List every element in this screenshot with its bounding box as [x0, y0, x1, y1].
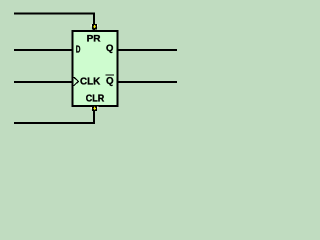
- clock edge triangle: [74, 77, 79, 86]
- junction dot at PR pin (with white side flecks): [91, 24, 98, 29]
- flip-flop U1 body: [73, 31, 118, 106]
- wire D input: [14, 49, 72, 51]
- wire PR input (top, bends down to PR pin): [14, 13, 95, 31]
- wire CLR input (bottom, bends up to CLR pin): [14, 107, 95, 124]
- wire Q-bar output: [119, 81, 178, 83]
- svg-text:PR: PR: [87, 33, 101, 44]
- svg-text:Q: Q: [106, 43, 113, 54]
- junction dot at CLR pin (with white side flecks): [90, 105, 98, 111]
- svg-text:CLK: CLK: [80, 77, 101, 88]
- pin label Q-bar: [106, 75, 114, 87]
- svg-text:Q: Q: [106, 76, 114, 87]
- wire CLK input: [14, 81, 72, 83]
- wire Q output: [119, 49, 178, 51]
- svg-text:D: D: [76, 44, 81, 55]
- svg-text:CLR: CLR: [86, 94, 105, 105]
